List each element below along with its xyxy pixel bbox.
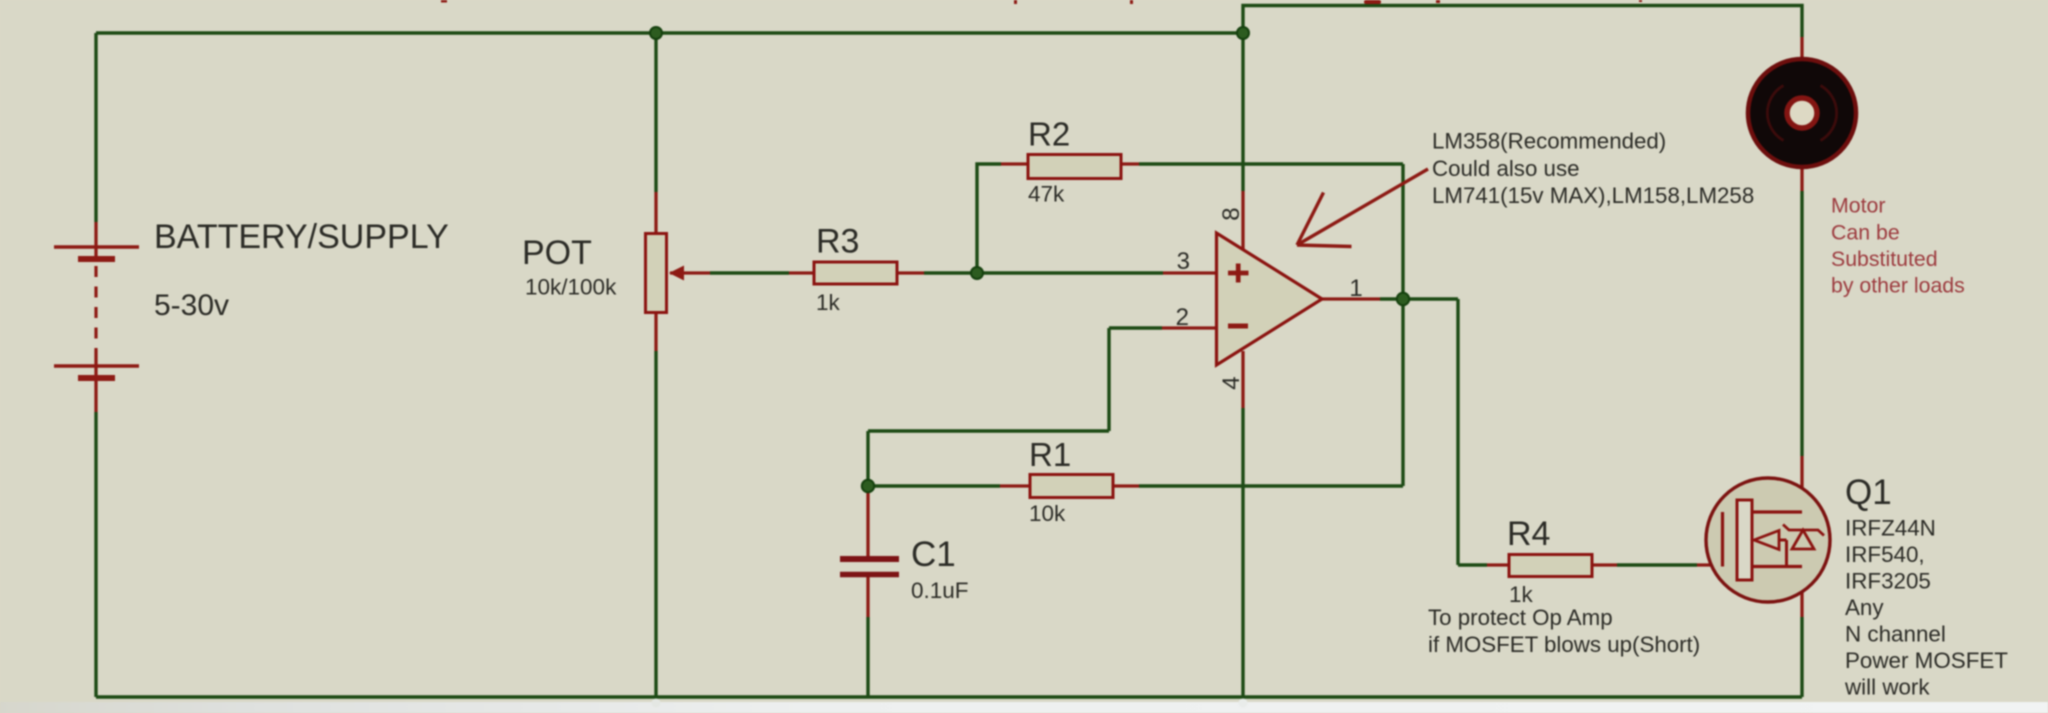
node B op-amp output (1397, 293, 1409, 305)
wire MOSFET source to ground (1800, 617, 1803, 697)
wire op-amp output to node B (1380, 297, 1403, 300)
svg-text:R2: R2 (1028, 116, 1070, 153)
cut-off title descender marks (441, 0, 1642, 4)
svg-text:POT: POT (522, 234, 592, 272)
wire pot wiper to R3 (710, 271, 789, 274)
svg-text:by other loads: by other loads (1831, 274, 1965, 298)
svg-text:2: 2 (1176, 304, 1189, 331)
motor shaft ring (1787, 98, 1817, 128)
resistor R4 body (1509, 555, 1592, 577)
wire MOSFET drain-source red vertical (1800, 456, 1803, 617)
wire R2 right to feedback riser (1139, 162, 1403, 165)
Q1 channel bar (1737, 500, 1752, 580)
wire top positive rail (96, 31, 1243, 34)
wire pin 4 to ground (1241, 408, 1244, 697)
svg-text:1: 1 (1349, 275, 1362, 302)
svg-text:Power MOSFET: Power MOSFET (1845, 648, 2008, 673)
wire R1 right to feedback riser (1139, 484, 1403, 487)
resistor R3 body (814, 262, 897, 284)
wire pin 8 supply (1241, 33, 1244, 191)
svg-text:3: 3 (1177, 248, 1190, 275)
wire bottom ground rail (96, 695, 1802, 698)
wire output node down to R1 wire (1401, 299, 1404, 486)
wire pot bottom (654, 351, 657, 697)
wire pin 3 red lead (1163, 271, 1218, 274)
svg-text:LM741(15v MAX),LM158,LM258: LM741(15v MAX),LM158,LM258 (1432, 183, 1754, 208)
node C R1 / C1 (862, 480, 874, 492)
svg-text:Motor: Motor (1831, 194, 1885, 218)
node A R3 output (971, 267, 983, 279)
Q1 body diode (1792, 530, 1814, 549)
motor right brush arc (1821, 86, 1837, 141)
wire motor bottom red lead (1800, 168, 1803, 191)
resistor R2 body (1028, 155, 1121, 179)
svg-text:Substituted: Substituted (1831, 247, 1938, 271)
node top rail / pot (650, 27, 662, 39)
svg-text:C1: C1 (911, 535, 956, 574)
wire R1 left red lead (1000, 484, 1030, 487)
wire battery bottom to ground rail (94, 412, 97, 697)
wire pin 2 across to C1 node (868, 429, 1109, 432)
svg-text:Q1: Q1 (1845, 473, 1892, 512)
svg-text:LM358(Recommended): LM358(Recommended) (1432, 129, 1666, 154)
svg-text:N channel: N channel (1845, 622, 1946, 647)
wire pin 2 down (1107, 328, 1110, 431)
battery cell 1 short plate (78, 256, 115, 262)
Q1 body diode cathode bar (1783, 525, 1824, 536)
svg-text:IRF540,: IRF540, (1845, 542, 1925, 567)
wire pot top (654, 33, 657, 192)
wire motor bottom to MOSFET drain (1800, 191, 1803, 456)
svg-text:Any: Any (1845, 595, 1884, 620)
node top rail / pin 8 riser (1237, 27, 1249, 39)
wire R2 right red lead (1121, 162, 1139, 165)
svg-text:1k: 1k (816, 290, 841, 315)
wire C1 bottom red stem (866, 575, 869, 617)
svg-text:if MOSFET blows up(Short): if MOSFET blows up(Short) (1428, 632, 1700, 657)
wire R3 left red lead (789, 271, 814, 274)
wire feedback riser down to output node (1401, 164, 1404, 299)
wire C1 top red stem (866, 490, 869, 557)
wire op-amp pin 2 left (1109, 326, 1162, 329)
wire pin 2 red lead (1162, 326, 1218, 329)
svg-text:8: 8 (1218, 207, 1245, 220)
junction node dots (650, 27, 1409, 492)
wire R4 left red lead (1487, 563, 1509, 566)
wire pot wiper red lead (670, 271, 710, 274)
wire battery stem bottom red (94, 350, 97, 412)
wire MOSFET gate red lead (1697, 563, 1723, 566)
wire motor top red lead (1800, 37, 1803, 59)
Q1 source connection (1752, 565, 1802, 568)
motor left brush arc (1767, 86, 1783, 141)
battery dashed link (94, 266, 97, 350)
op-amp minus input marker (1228, 324, 1248, 329)
capacitor C1 plates (840, 559, 899, 575)
wire R4 branch down (1456, 299, 1459, 565)
potentiometer POT 10k/100k (646, 234, 685, 313)
svg-text:To protect Op Amp: To protect Op Amp (1428, 605, 1613, 630)
op-amp U1 LM358 (1217, 233, 1323, 365)
svg-text:IRFZ44N: IRFZ44N (1845, 516, 1936, 541)
wire R1 right red lead (1113, 484, 1139, 487)
svg-text:BATTERY/SUPPLY: BATTERY/SUPPLY (154, 218, 449, 256)
Q1 drain connection (1752, 510, 1802, 513)
pot wiper arrow (669, 266, 684, 281)
battery B1 BATTERY/SUPPLY (54, 247, 139, 378)
wire R4 right red lead (1592, 563, 1617, 566)
wire R4 left lead green (1458, 563, 1487, 566)
battery cell 1 long plate (54, 245, 139, 248)
wire op-amp output red lead (1321, 297, 1380, 300)
wire pin 4 red lead (1241, 351, 1244, 408)
resistor R1 body (1030, 475, 1113, 498)
svg-text:Can be: Can be (1831, 220, 1900, 244)
Q1 bulk arrow (1754, 531, 1779, 550)
wire C1 bottom to ground (866, 617, 869, 697)
svg-text:10k: 10k (1029, 501, 1066, 526)
svg-text:R4: R4 (1507, 515, 1550, 553)
wire R3 to node A (924, 271, 977, 274)
wire node A to op-amp pin 3 (977, 271, 1163, 274)
svg-text:will work: will work (1844, 675, 1930, 700)
wire pin 8 red lead (1241, 191, 1244, 249)
svg-text:R1: R1 (1029, 436, 1071, 473)
battery cell 2 long plate (54, 364, 139, 367)
wire down to node C (866, 431, 869, 486)
svg-text:Could also use: Could also use (1432, 156, 1580, 181)
svg-text:IRF3205: IRF3205 (1845, 569, 1931, 594)
battery cell 2 short plate (78, 375, 115, 381)
wire node B to R4 branch (1403, 297, 1458, 300)
motor M1 (1748, 59, 1856, 167)
wire battery stem top red (94, 222, 97, 256)
svg-text:1k: 1k (1509, 582, 1534, 607)
svg-text:10k/100k: 10k/100k (525, 275, 617, 300)
wire node C to R1 (868, 484, 1000, 487)
wire top-right riser to motor (1243, 6, 1802, 38)
wire pot top red lead (654, 192, 657, 234)
wire R3 right red lead (897, 271, 924, 274)
svg-text:47k: 47k (1028, 182, 1065, 207)
wire pot bottom red lead (654, 312, 657, 351)
op-amp plus input marker (1228, 264, 1249, 283)
MOSFET Q1 (1706, 478, 1830, 602)
svg-text:4: 4 (1218, 376, 1245, 389)
svg-text:5-30v: 5-30v (154, 289, 229, 322)
Q1 gate bar (1721, 512, 1724, 567)
wire R4 right to MOSFET gate (1617, 563, 1697, 566)
wire battery top (94, 33, 97, 222)
wire R2 left red lead (1001, 162, 1028, 165)
wire node A up to R2 (977, 164, 1001, 273)
svg-text:R3: R3 (816, 223, 859, 261)
svg-text:0.1uF: 0.1uF (911, 578, 969, 603)
annotation arrow to op-amp (1297, 169, 1428, 247)
